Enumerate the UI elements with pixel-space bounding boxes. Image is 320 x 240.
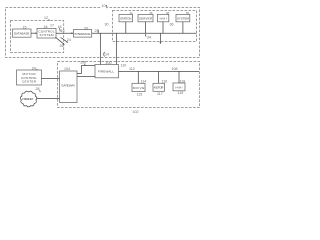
- stub drive A: [137, 71, 139, 83]
- wire control system to motor drive with fan labels 18: [55, 25, 73, 48]
- svg-text:102: 102: [133, 110, 139, 114]
- dashed boundary 10 (plant, upper): [6, 8, 200, 58]
- label 110: [121, 64, 127, 68]
- wire drop to firewall right-top: [115, 33, 117, 64]
- second diagonal stub: [61, 37, 68, 42]
- firewall box: [95, 65, 119, 78]
- svg-text:26: 26: [60, 44, 64, 48]
- faint numerals above workstation boxes: [130, 11, 190, 15]
- wire box1 to box2: [31, 32, 37, 34]
- label 14: [104, 52, 109, 57]
- HMI box: [157, 14, 168, 21]
- svg-text:118: 118: [180, 79, 186, 83]
- svg-text:HMI: HMI: [160, 17, 167, 21]
- label 114: [141, 80, 147, 84]
- wire gateway to firewall (jog) label 106: [77, 61, 95, 74]
- svg-text:MOTOR: MOTOR: [154, 86, 164, 90]
- label below box A: [137, 92, 143, 96]
- label 102: [133, 110, 139, 114]
- svg-text:STATION: STATION: [120, 17, 132, 21]
- svg-text:INTERNET: INTERNET: [22, 97, 33, 101]
- svg-text:INTERFACE: INTERFACE: [75, 32, 91, 36]
- label below box B: [157, 92, 163, 96]
- label 34 below bus: [146, 34, 151, 40]
- svg-text:17: 17: [50, 23, 54, 27]
- svg-text:115: 115: [137, 92, 143, 96]
- motor control center box: [17, 70, 42, 85]
- svg-text:117: 117: [157, 92, 163, 96]
- svg-text:DRIVE: DRIVE: [133, 86, 145, 90]
- label 24: [32, 66, 37, 70]
- workstation box 1: [119, 14, 133, 21]
- label 36: [170, 23, 174, 27]
- label 100: [106, 61, 112, 65]
- svg-text:24: 24: [32, 66, 36, 70]
- stub workstation2: [145, 22, 147, 33]
- svg-text:CENTER: CENTER: [22, 79, 37, 83]
- label 28: [36, 87, 41, 92]
- dashed boundary 102 (lower network): [58, 61, 200, 107]
- svg-text:104: 104: [64, 67, 70, 71]
- drive box A: [132, 83, 145, 91]
- box operator interface: [13, 29, 32, 37]
- label 116: [162, 80, 168, 84]
- wire drop to firewall left-top: [100, 33, 102, 64]
- gateway box: [60, 71, 78, 103]
- dashed box 30 (top-right workstation group): [113, 11, 197, 42]
- label 104: [64, 67, 70, 71]
- diagonal stub from control system: [55, 37, 64, 44]
- svg-text:34: 34: [147, 36, 151, 40]
- control bus from firewall to right edge: [119, 67, 200, 71]
- label 16 above box: [44, 23, 55, 29]
- workstation box 4: [176, 14, 190, 21]
- label 118: [180, 79, 186, 83]
- svg-text:SYSTEM: SYSTEM: [177, 17, 190, 21]
- stub below bus with arrow: [160, 33, 162, 44]
- svg-text:20: 20: [84, 26, 88, 30]
- stub drive B: [158, 71, 160, 83]
- svg-text:36: 36: [170, 23, 174, 27]
- box control system: [37, 28, 56, 38]
- svg-text:106: 106: [80, 61, 86, 65]
- stub workstation4: [182, 22, 184, 33]
- svg-text:112: 112: [129, 67, 135, 71]
- svg-text:114: 114: [141, 80, 147, 84]
- stub HMI down through bus with arrow: [162, 22, 164, 33]
- svg-text:FIREWALL: FIREWALL: [98, 69, 114, 73]
- box motor drive 20: [73, 30, 91, 37]
- svg-text:108: 108: [172, 67, 178, 71]
- label 12: [44, 16, 50, 21]
- svg-text:19: 19: [61, 29, 65, 33]
- stub workstation1: [125, 22, 127, 33]
- svg-text:119: 119: [178, 91, 184, 95]
- svg-text:SYSTEM: SYSTEM: [40, 33, 55, 37]
- dashed box 12 (control room, top-left): [11, 21, 64, 53]
- svg-text:15: 15: [23, 26, 27, 30]
- stub HMI bottom: [178, 71, 180, 83]
- svg-text:12: 12: [44, 16, 48, 20]
- label below HMI box: [178, 91, 184, 95]
- svg-text:DATABASE: DATABASE: [14, 32, 30, 36]
- svg-text:GATEWAY: GATEWAY: [61, 83, 75, 87]
- label 15 above box: [23, 26, 27, 30]
- wire cloud to gateway: [36, 98, 59, 100]
- svg-text:SERVER: SERVER: [139, 17, 153, 21]
- workstation box 2: [138, 14, 153, 21]
- wire MCC to gateway: [42, 78, 60, 80]
- label 30: [105, 23, 109, 27]
- svg-text:30: 30: [105, 23, 109, 27]
- svg-text:HMI: HMI: [176, 85, 183, 89]
- HMI box bottom: [173, 83, 185, 91]
- svg-text:14: 14: [105, 53, 109, 57]
- wire gateway to firewall straight: [77, 75, 95, 77]
- svg-text:28: 28: [36, 87, 40, 91]
- svg-text:10: 10: [102, 4, 106, 8]
- label 10: [101, 4, 108, 8]
- internet cloud: [20, 91, 37, 107]
- svg-text:116: 116: [162, 80, 168, 84]
- label 20: [84, 26, 88, 30]
- wire motor drive to plant bus, label 22: [92, 29, 197, 33]
- svg-text:110: 110: [121, 64, 127, 68]
- svg-text:24: 24: [67, 38, 71, 42]
- svg-text:16: 16: [44, 25, 48, 29]
- drive box B: [153, 83, 165, 91]
